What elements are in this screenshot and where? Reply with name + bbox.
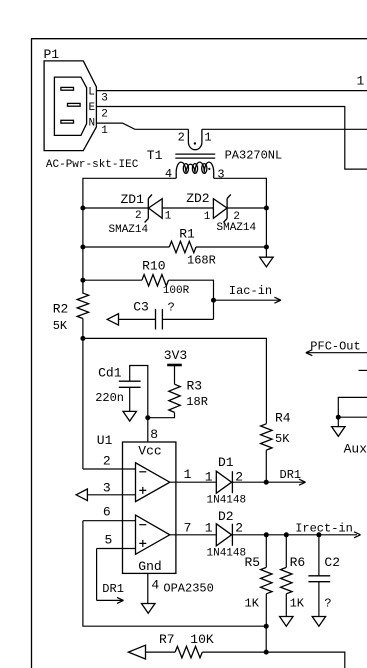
op-amp U1 box xyxy=(97,433,176,574)
ground (right node) xyxy=(260,247,273,267)
svg-text:1: 1 xyxy=(165,211,172,223)
wire pin5 down xyxy=(96,549,98,601)
svg-text:1: 1 xyxy=(184,467,192,482)
svg-text:168R: 168R xyxy=(187,253,216,267)
svg-text:DR1: DR1 xyxy=(102,582,124,596)
wire to R7 row xyxy=(265,626,267,652)
svg-text:C2: C2 xyxy=(324,555,340,570)
ground (U1 pin4) xyxy=(142,604,156,614)
node R1 row left xyxy=(80,245,85,250)
svg-text:1: 1 xyxy=(205,469,213,484)
svg-text:5K: 5K xyxy=(53,319,68,333)
svg-text:3: 3 xyxy=(217,167,224,181)
wire Irect row xyxy=(232,534,357,536)
svg-text:P1: P1 xyxy=(44,47,60,62)
connector P1 xyxy=(44,47,139,171)
svg-text:?: ? xyxy=(168,301,175,315)
svg-text:1N4148: 1N4148 xyxy=(207,548,247,560)
node R5 top xyxy=(264,532,269,537)
port arrow (C3 input) xyxy=(107,314,118,325)
node R10 row left xyxy=(80,278,85,283)
wire R1 row xyxy=(83,246,267,248)
op-amp U1.B triangle xyxy=(136,515,170,554)
svg-text:R1: R1 xyxy=(179,226,195,241)
node C2 top xyxy=(316,532,321,537)
node junction pin8 xyxy=(145,415,150,420)
svg-text:OPA2350: OPA2350 xyxy=(163,582,213,596)
node feedback bottom xyxy=(264,624,269,629)
wire R10 row xyxy=(83,280,214,319)
svg-text:6: 6 xyxy=(103,505,111,520)
wire E pin2 xyxy=(96,107,367,170)
transformer T1 xyxy=(147,129,282,181)
pin 6 wire xyxy=(83,520,136,522)
svg-text:R6: R6 xyxy=(290,555,306,570)
svg-text:2: 2 xyxy=(101,109,108,121)
wire R4 bottom xyxy=(265,450,267,482)
svg-text:2: 2 xyxy=(235,521,243,536)
svg-text:R10: R10 xyxy=(142,258,165,273)
resistor R4 xyxy=(261,411,291,451)
pin 2 wire xyxy=(83,468,136,470)
diode D1 xyxy=(205,455,246,506)
svg-text:E: E xyxy=(89,102,96,114)
supply 3V3 xyxy=(164,348,187,384)
wire D1 to node xyxy=(232,481,266,483)
wire ZD2 to right node xyxy=(227,207,266,209)
svg-text:18R: 18R xyxy=(186,395,208,409)
wire R3 bottom to junction xyxy=(148,412,175,417)
svg-text:R2: R2 xyxy=(53,301,69,316)
svg-text:Gnd: Gnd xyxy=(138,559,161,574)
net arrow DR1 (right) xyxy=(266,468,305,485)
svg-text:220n: 220n xyxy=(95,391,124,405)
svg-text:ZD1: ZD1 xyxy=(121,192,145,207)
aux component (cut off at right edge) xyxy=(336,370,367,426)
wire ZD1 to ZD2 xyxy=(162,207,213,209)
wire pin 8 xyxy=(147,418,149,442)
svg-text:Iac-in: Iac-in xyxy=(229,284,272,298)
node rail row xyxy=(80,336,85,341)
svg-text:100R: 100R xyxy=(163,285,190,297)
svg-text:5K: 5K xyxy=(275,432,290,446)
node DR1 junction xyxy=(264,480,269,485)
ground (R6) xyxy=(280,617,293,627)
net label DR1 (left) xyxy=(97,582,124,603)
svg-text:PFC-Out: PFC-Out xyxy=(310,340,360,354)
capacitor Cd1 xyxy=(95,366,148,418)
svg-text:R3: R3 xyxy=(187,379,203,394)
svg-text:8: 8 xyxy=(150,427,158,442)
svg-text:1: 1 xyxy=(205,521,213,536)
port arrow (pin 3 input) xyxy=(76,489,87,501)
svg-text:D2: D2 xyxy=(218,509,234,524)
node ZD row right xyxy=(264,206,269,211)
wire C3 left xyxy=(119,318,156,320)
svg-text:AC-Pwr-skt-IEC: AC-Pwr-skt-IEC xyxy=(46,159,139,171)
node ZD row left xyxy=(80,206,85,211)
svg-text:SMAZ14: SMAZ14 xyxy=(217,222,257,234)
resistor R2 xyxy=(53,280,89,333)
resistor R1 xyxy=(169,226,216,267)
zener ZD2 xyxy=(186,191,256,234)
ground (Cd1) xyxy=(123,411,136,421)
capacitor C2 xyxy=(308,535,340,617)
svg-text:2: 2 xyxy=(103,454,111,469)
capacitor C3 xyxy=(133,300,175,330)
svg-text:3: 3 xyxy=(103,480,111,495)
wire output pin7 xyxy=(170,534,217,536)
resistor R10 xyxy=(142,258,190,297)
svg-text:1K: 1K xyxy=(290,597,305,611)
svg-text:1: 1 xyxy=(357,73,365,88)
wire secondary pin4 to left rail xyxy=(83,178,176,280)
port arrow (R7 input) xyxy=(128,645,145,659)
svg-text:Irect-in: Irect-in xyxy=(295,522,353,536)
node R7 row xyxy=(264,650,269,655)
svg-text:2: 2 xyxy=(135,210,142,222)
resistor R5 xyxy=(245,535,273,626)
pin 4 wire + label xyxy=(147,573,149,603)
svg-text:Cd1: Cd1 xyxy=(98,366,122,381)
svg-text:Aux: Aux xyxy=(344,442,367,457)
svg-text:2: 2 xyxy=(178,130,185,144)
svg-text:10K: 10K xyxy=(190,632,214,647)
svg-text:R5: R5 xyxy=(245,555,261,570)
svg-text:T1: T1 xyxy=(147,148,163,163)
svg-text:7: 7 xyxy=(184,520,192,535)
op-amp U1.A triangle xyxy=(136,463,170,502)
resistor R6 xyxy=(281,535,306,617)
svg-text:L: L xyxy=(88,87,95,99)
wire secondary pin3 to right column xyxy=(214,178,267,247)
net arrow Iac-in xyxy=(211,284,281,303)
svg-text:Vcc: Vcc xyxy=(138,444,161,459)
svg-text:3V3: 3V3 xyxy=(164,348,187,363)
node R6 top xyxy=(284,532,289,537)
resistor R7 xyxy=(159,632,214,658)
svg-text:R4: R4 xyxy=(275,411,291,426)
pin 3 wire xyxy=(87,494,135,496)
net arrow Irect-in xyxy=(295,522,360,538)
left rail below R2 xyxy=(82,319,84,470)
diode D2 xyxy=(205,509,246,560)
svg-text:ZD2: ZD2 xyxy=(186,191,209,206)
svg-text:U1: U1 xyxy=(97,433,113,448)
wire R7 row xyxy=(146,652,345,668)
svg-text:1: 1 xyxy=(204,130,211,144)
resistor R3 xyxy=(169,379,208,413)
svg-text:?: ? xyxy=(324,597,331,611)
net arrow PFC-Out xyxy=(306,340,367,356)
ground (C2) xyxy=(312,617,325,627)
wire output pin1 xyxy=(170,481,217,483)
wire ZD row left xyxy=(83,207,148,209)
wire N to right edge xyxy=(202,128,367,130)
svg-text:C3: C3 xyxy=(133,300,149,315)
svg-text:1N4148: 1N4148 xyxy=(207,495,247,507)
svg-text:3: 3 xyxy=(101,92,108,104)
svg-text:N: N xyxy=(89,118,96,130)
svg-text:R7: R7 xyxy=(159,632,175,647)
svg-text:1K: 1K xyxy=(245,597,260,611)
wire pin6 feedback rail xyxy=(83,521,266,627)
wire L pin3 xyxy=(96,90,367,92)
svg-text:1: 1 xyxy=(101,125,108,137)
svg-text:5: 5 xyxy=(105,533,113,548)
wire C3 right xyxy=(162,318,213,320)
wire N pin1 xyxy=(96,123,188,129)
pin 5 wire xyxy=(97,548,136,550)
node R1 row right xyxy=(264,245,269,250)
svg-text:4: 4 xyxy=(151,578,159,593)
svg-text:1: 1 xyxy=(204,211,211,223)
svg-text:SMAZ14: SMAZ14 xyxy=(109,224,149,236)
svg-text:PA3270NL: PA3270NL xyxy=(225,148,283,162)
zener ZD1 xyxy=(109,192,172,236)
svg-text:DR1: DR1 xyxy=(280,468,302,482)
ground (aux) xyxy=(332,427,345,437)
svg-text:D1: D1 xyxy=(218,455,234,470)
wire row to R4 xyxy=(83,338,267,423)
